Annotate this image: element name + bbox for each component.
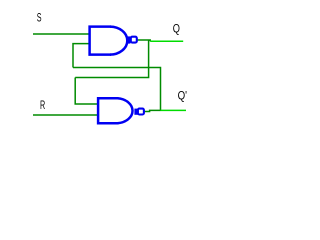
svg-text:S: S [37,12,42,25]
wire Q' feedback horizontal [73,68,161,111]
wire gate1 lower input stub from node Q' feedback [73,44,90,68]
NAND gate U2 output bubble [138,109,144,115]
NAND gate U2 body [98,98,118,123]
NAND gate U1 output tip block [126,36,130,43]
wire Q output (bright, logic high) [150,40,183,42]
NAND gate U1 output bubble [131,37,137,43]
wire Q' output stub (dark) [145,110,161,111]
svg-text:Q: Q [173,21,180,35]
wire Q output stub (dark) [137,40,150,41]
wire S input [33,33,90,35]
wire Q feedback into gate2 upper input [75,78,98,105]
NAND gate U2 output tip block [134,109,138,115]
wire R input [33,114,99,116]
NAND gate U1 body [90,27,111,55]
NAND gate U1 arc [110,27,127,55]
svg-text:Q': Q' [178,89,187,103]
wire Q feedback vertical [75,40,148,78]
wire Q' output (bright, logic high) [161,109,187,111]
NAND gate U2 arc [118,98,133,123]
svg-text:R: R [40,98,45,112]
